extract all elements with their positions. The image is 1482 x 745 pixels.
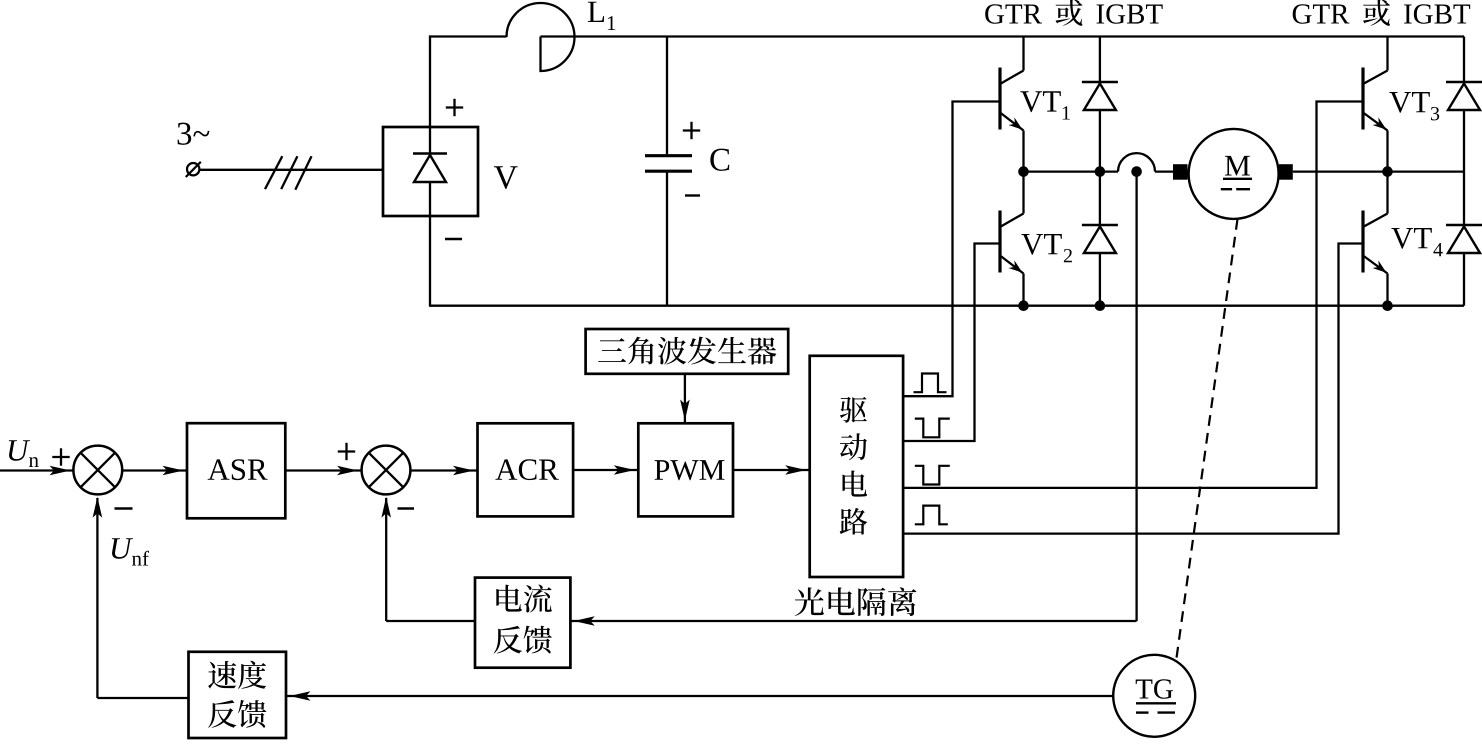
transistor VT2 xyxy=(1000,211,1025,277)
block PWM xyxy=(638,423,733,516)
wire right brush to VT3 leg xyxy=(1293,170,1388,172)
label M with DC underline xyxy=(1221,156,1252,189)
wire VT1 emitter to mid node xyxy=(1022,131,1024,172)
node D1 mid dot xyxy=(1095,166,1106,177)
tachogenerator TG circle xyxy=(1113,655,1195,737)
wire mid bus left xyxy=(1024,170,1119,172)
label Unf xyxy=(112,538,149,565)
wire VT3 emitter to mid node xyxy=(1386,131,1388,172)
wire top bus left segment xyxy=(430,35,507,37)
transistor VT4 xyxy=(1363,211,1389,277)
wire input Un to summer 1 xyxy=(0,466,74,476)
wire top bus main segment xyxy=(541,35,1465,37)
wire top-left vertical (rectifier + output) xyxy=(429,35,431,306)
wire current feedback to summer 2 xyxy=(381,497,475,621)
wire triangle generator to PWM xyxy=(680,374,690,424)
wire mid bus to right diode leg xyxy=(1388,170,1465,172)
wire bottom bus xyxy=(430,305,1464,307)
label C xyxy=(710,149,729,171)
pulse waveform 3 (negative) xyxy=(915,466,950,485)
pulse waveform 1 (positive) xyxy=(914,374,947,393)
wire drive output 1 to VT1 base xyxy=(903,102,1000,397)
label L1 xyxy=(588,2,615,30)
diode D1 xyxy=(1082,82,1118,110)
wire diode D1 column xyxy=(1099,37,1101,172)
wire diode D3 column xyxy=(1463,37,1465,172)
label VT2 xyxy=(1021,234,1072,262)
label current feedback text xyxy=(494,585,552,654)
label TG with underline xyxy=(1136,679,1176,712)
motor left brush xyxy=(1173,164,1188,180)
label GTR or IGBT (right) xyxy=(1293,0,1470,26)
wire current tap vertical xyxy=(1135,172,1137,621)
label ACR xyxy=(495,459,558,480)
diode symbol inside rectifier xyxy=(413,154,447,183)
pulse waveform 2 (negative) xyxy=(915,419,950,438)
wire VT1 collector xyxy=(1022,37,1024,71)
wire VT4 collector from mid node xyxy=(1386,172,1388,214)
label V xyxy=(494,166,518,189)
wire ACR to PWM xyxy=(573,465,638,475)
node current tap dot xyxy=(1131,166,1142,177)
dashed shaft coupling M to TG xyxy=(1177,219,1238,658)
diode D2 xyxy=(1082,225,1118,253)
wire VT3 collector xyxy=(1386,37,1388,71)
block triangle wave generator xyxy=(586,329,789,374)
wire summer 2 to ACR xyxy=(410,466,477,476)
block speed feedback xyxy=(189,652,287,738)
wire current tap to current feedback block xyxy=(570,616,1136,626)
label Un xyxy=(9,440,39,467)
wire drive output 4 to VT4 base xyxy=(903,244,1363,534)
motor right brush xyxy=(1279,164,1293,180)
wire TG to speed feedback block xyxy=(286,691,1113,701)
block ACR xyxy=(478,423,574,516)
label VT3 xyxy=(1389,92,1439,120)
label VT4 xyxy=(1391,228,1442,256)
node VT2 bottom dot xyxy=(1018,300,1029,311)
wire ASR to summer 2 xyxy=(285,466,361,476)
wire diode D2 column xyxy=(1099,172,1101,306)
wire PWM to drive circuit xyxy=(733,465,810,475)
label - for capacitor xyxy=(685,194,700,196)
wire from source to rectifier V xyxy=(200,169,384,171)
label + at summer 1 xyxy=(52,448,69,465)
node 3-phase AC source label 3~ xyxy=(178,123,210,145)
block ASR xyxy=(187,423,285,518)
summing junction 1 xyxy=(73,446,122,495)
wire drive output 2 to VT2 base xyxy=(903,244,1000,442)
node VT4 bottom dot xyxy=(1382,300,1393,311)
three-phase slash marks xyxy=(265,156,312,190)
motor M circle xyxy=(1189,129,1279,219)
label ASR xyxy=(208,459,268,480)
label - at summer 1 xyxy=(115,507,133,509)
capacitor C upper wire xyxy=(666,37,668,155)
capacitor C lower wire xyxy=(666,173,668,306)
node D2 bottom dot xyxy=(1095,300,1106,311)
wire VT4 emitter to bottom bus xyxy=(1386,274,1388,306)
label triangle wave generator text xyxy=(598,337,776,365)
label speed feedback text xyxy=(208,661,266,728)
label - at summer 2 xyxy=(398,507,415,509)
pulse waveform 4 (positive) xyxy=(915,506,948,525)
label - below rectifier xyxy=(445,238,462,240)
block current feedback xyxy=(475,578,570,668)
transistor VT3 xyxy=(1363,68,1389,134)
label + above rectifier xyxy=(446,99,463,116)
rectifier V box xyxy=(383,127,478,216)
node VT1-D1 mid dot xyxy=(1018,166,1029,177)
block drive circuit xyxy=(810,356,903,577)
transistor VT1 xyxy=(1000,68,1025,134)
label photo-isolation text xyxy=(795,587,917,616)
label VT1 xyxy=(1020,91,1069,119)
diode D4 xyxy=(1446,225,1482,253)
wire speed feedback to summer 1 xyxy=(93,497,189,698)
wire arc to left brush xyxy=(1155,170,1174,172)
label + for capacitor xyxy=(683,122,700,139)
wire VT2 collector from mid node xyxy=(1022,172,1024,214)
label drive circuit text xyxy=(840,397,868,535)
inductor L1 loop xyxy=(507,3,575,71)
terminal circle with slash (phase input) xyxy=(186,162,201,177)
diode D3 xyxy=(1446,82,1482,110)
capacitor C plates xyxy=(645,156,692,172)
label PWM xyxy=(655,460,725,480)
wire VT2 emitter to bottom bus xyxy=(1022,274,1024,306)
wire drive output 3 to VT3 base xyxy=(903,102,1363,488)
node VT3-D3 mid dot xyxy=(1382,166,1393,177)
summing junction 2 xyxy=(362,446,411,495)
label + at summer 2 xyxy=(338,443,355,460)
wire summer 1 to ASR xyxy=(122,466,187,476)
wire diode D4 column xyxy=(1463,172,1465,306)
label GTR or IGBT (left) xyxy=(985,0,1162,26)
wire hop-over arc at current tap xyxy=(1118,153,1155,172)
